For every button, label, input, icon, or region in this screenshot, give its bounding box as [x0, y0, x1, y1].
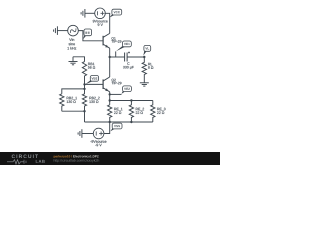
ground (V3 negative terminal): [78, 129, 82, 138]
junction node VE1: [109, 56, 111, 58]
wire base node to Q2: [85, 83, 104, 85]
net flag VE2: [121, 86, 131, 94]
junction node VL: [143, 56, 145, 58]
ground (V1 negative terminal): [81, 9, 85, 18]
resistor RL 8 ohm: [142, 57, 146, 83]
label C 330 uF: [123, 62, 134, 69]
watermark bar: [0, 152, 220, 165]
wire ground to Vin: [57, 30, 67, 32]
voltage source V3 -9Vsource: [93, 128, 104, 139]
junction RE_2 bottom: [130, 121, 132, 123]
watermark line 2 url: [54, 159, 99, 162]
wire Q1 emitter down to Q2 collector: [109, 48, 111, 77]
CircuitLab logo text LAB: [36, 160, 45, 163]
resistor RE_3 22 ohm: [151, 101, 155, 123]
CircuitLab logo text CIRCUIT: [12, 155, 38, 159]
resistor RB2_1 130 ohm: [60, 94, 64, 111]
CircuitLab logo wire art: [7, 160, 26, 164]
voltage source V1 9Vsource: [95, 8, 106, 19]
wire bottom rail VSS: [85, 121, 153, 123]
wire ground to RB1: [73, 57, 85, 62]
label V3 -9Vsource -9 V: [90, 140, 106, 146]
wire emitter node to capacitor: [110, 56, 125, 58]
wire emitter node to VE2 flag: [110, 93, 122, 95]
ground (Vin negative terminal): [54, 26, 58, 35]
watermark line 1 project: [73, 155, 98, 157]
wire Vin to Q1 base: [78, 31, 103, 41]
wire Q2 emitter down to rail: [109, 92, 111, 105]
junction node Q2 base: [83, 83, 85, 85]
net flag VB2: [85, 76, 98, 85]
wire emitter rail: [110, 100, 153, 102]
label RE_2 22 ohm: [136, 108, 144, 114]
label V1 9Vsource 9 V: [93, 20, 108, 26]
ground (RB1 top): [69, 57, 78, 65]
net flag VCC: [109, 9, 121, 17]
net flag VSS: [110, 123, 122, 131]
label RE_3 22 ohm: [157, 108, 165, 114]
label RB2_2 130 ohm: [89, 97, 99, 103]
wire to RB2_1 top: [62, 89, 85, 94]
label RE_1 22 ohm: [114, 108, 122, 114]
watermark line 1 username: [54, 155, 72, 158]
capacitor C 330uF: [125, 52, 130, 62]
resistor RB1 56 ohm: [82, 62, 86, 85]
wire capacitor to load node: [127, 56, 144, 58]
label V2 Vin sine 1 kHz: [67, 38, 76, 49]
label RB2_1 130 ohm: [67, 97, 77, 103]
resistor RB2_2 130 ohm: [82, 89, 86, 111]
junction RE_2 top: [130, 99, 132, 101]
ground (below RL): [140, 83, 149, 86]
voltage source V2 Vin (sine): [68, 25, 79, 36]
resistor RE_2 22 ohm: [129, 101, 133, 123]
wire V3 to ground: [82, 133, 93, 135]
label RL 8 ohm: [148, 63, 153, 69]
resistor RE_1 22 ohm: [108, 105, 112, 122]
junction RE_1 top: [109, 99, 111, 101]
label Q1 TIP-29: [111, 37, 121, 42]
junction node RB2 top: [83, 88, 85, 90]
wire ground to V1: [85, 12, 95, 14]
wire rail to V3: [104, 122, 110, 134]
net flag VE1: [115, 51, 117, 57]
wire RB2 bottoms: [62, 111, 85, 122]
junction Q2 emitter node: [109, 93, 111, 95]
junction RB2_2 bottom: [83, 110, 85, 112]
transistor Q1 TIP-29 (NPN): [103, 33, 110, 48]
junction RE_1 bottom: [109, 121, 111, 123]
label Q2 TIP-29: [111, 79, 121, 85]
wire V1 to VCC corner: [105, 13, 109, 33]
transistor Q2 TIP-29 (NPN): [103, 77, 110, 92]
probe flag (oscilloscope) on Vin node: [83, 29, 92, 39]
net flag VL: [143, 45, 150, 55]
label RB1 56 ohm: [88, 63, 95, 69]
wire base node down to RB2 divider: [84, 84, 86, 89]
